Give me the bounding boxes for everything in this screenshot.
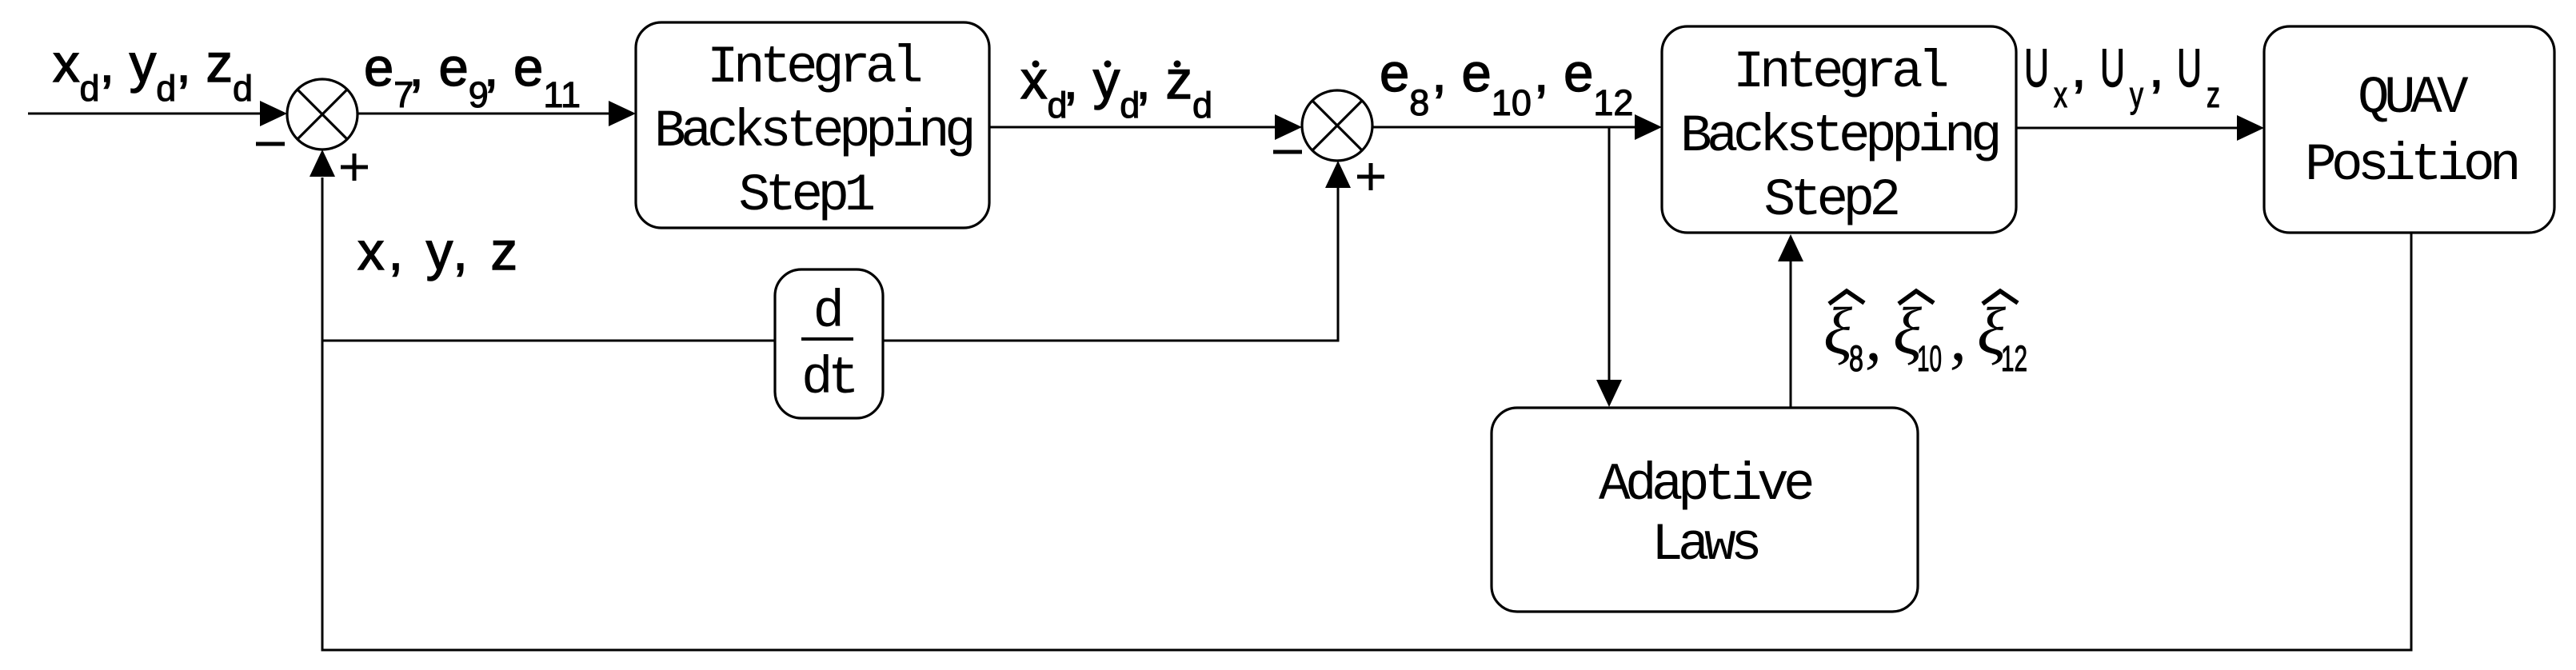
svg-text:Integral: Integral [1733, 42, 1947, 102]
svg-text:y: y [2130, 74, 2143, 115]
wire d/dt to S2 plus input [883, 161, 1351, 341]
svg-text:d: d [813, 282, 840, 342]
svg-text:QUAV: QUAV [2358, 68, 2469, 128]
svg-text:12: 12 [2001, 338, 2027, 379]
wire input x_d [28, 101, 287, 126]
svg-text:Step1: Step1 [738, 166, 873, 225]
svg-text:Adaptive: Adaptive [1599, 455, 1812, 515]
node label U_x, U_y, U_z [2024, 38, 2220, 115]
svg-text:z: z [2207, 74, 2220, 115]
feedback wire from QUAV bottom to S1 plus input [310, 150, 2411, 650]
wire U to QUAV [2016, 115, 2264, 141]
svg-text:,: , [2149, 38, 2164, 98]
block d/dt [775, 269, 883, 418]
wire branch e8 down to Adaptive Laws [1596, 127, 1622, 407]
wire feedback to d/dt [322, 340, 775, 342]
minus sign at S1 [256, 142, 285, 146]
svg-text:U: U [2177, 38, 2202, 98]
wire xdot_d to S2 [989, 114, 1302, 140]
minus sign at S2 [1273, 150, 1302, 154]
svg-text:ξ: ξ [1823, 294, 1852, 369]
summing junction S1 [287, 79, 357, 150]
node label xdot_d, ydot_d, zdot_d [1020, 50, 1212, 126]
svg-text:Step2: Step2 [1763, 170, 1897, 230]
wire e8 to Step2 [1372, 114, 1662, 140]
block Integral Backstepping Step1 [636, 22, 989, 228]
plus sign at S1 [341, 154, 368, 181]
svg-text:Integral: Integral [707, 38, 921, 98]
wire e7 to Step1 [357, 101, 636, 126]
svg-text:Backstepping: Backstepping [654, 102, 972, 162]
svg-text:Position: Position [2305, 135, 2517, 195]
svg-text:10: 10 [1917, 338, 1942, 379]
svg-text:dt: dt [801, 349, 854, 409]
block Integral Backstepping Step2 [1662, 26, 2016, 233]
svg-text:,: , [1865, 301, 1882, 375]
node label xi-hat 8, 10, 12 [1823, 291, 2027, 379]
svg-text:Backstepping: Backstepping [1680, 106, 1998, 166]
summing junction S2 [1302, 90, 1372, 161]
block QUAV Position [2264, 26, 2554, 233]
svg-text:8: 8 [1849, 338, 1863, 379]
svg-text:x, y, z: x, y, z [357, 221, 521, 281]
plus sign at S2 [1357, 163, 1384, 190]
svg-text:U: U [2024, 38, 2049, 98]
svg-text:,: , [1950, 301, 1967, 375]
block Adaptive Laws [1492, 408, 1918, 612]
svg-text:U: U [2100, 38, 2125, 98]
svg-text:x: x [2054, 74, 2067, 115]
svg-text:,: , [2071, 38, 2087, 98]
svg-text:Laws: Laws [1651, 515, 1759, 575]
wire Adaptive Laws up to Step2 [1778, 234, 1803, 408]
